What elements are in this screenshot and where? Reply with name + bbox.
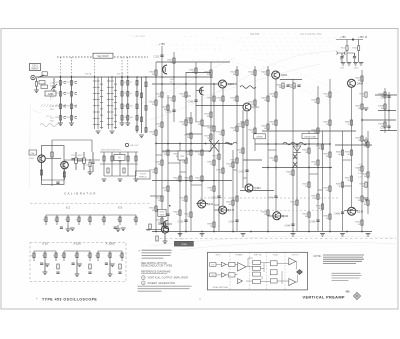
resistor R24 [59, 116, 61, 121]
resistor R23 [59, 104, 61, 109]
resistor divider X 100.2 [76, 253, 78, 258]
resistor R412 [236, 196, 238, 201]
resistor R506 [367, 142, 369, 147]
svg-text:Sig COAX: Sig COAX [97, 55, 109, 58]
capacitor trimmer X 2 [60, 227, 63, 228]
resistor R384 [213, 160, 215, 165]
resistor R492 [350, 176, 352, 181]
resistor R579 [63, 172, 65, 177]
svg-text:C A L I B R A T O R: C A L I B R A T O R [64, 192, 96, 196]
block: delay line box [270, 261, 277, 266]
resistor R424 [254, 70, 256, 75]
resistor R342 [179, 210, 181, 215]
transistor Q585 calibrator [61, 161, 69, 169]
resistor R410 [236, 158, 238, 163]
resistor R90 [145, 128, 147, 133]
wire: rail x162 [161, 46, 163, 231]
resistor ladder rungs [93, 81, 117, 128]
resistor R2 1M [35, 82, 37, 87]
transistor Q414 (half visible) [163, 65, 167, 74]
svg-text:SW 1A: SW 1A [85, 73, 92, 76]
ground Q595 [164, 233, 166, 241]
capacitor trimmer X 5 [114, 227, 117, 228]
svg-text:C590: C590 [381, 127, 387, 130]
resistor R356 [190, 133, 192, 138]
resistor R454 [308, 182, 310, 187]
capacitor C590 [387, 126, 390, 127]
resistor R595 [107, 168, 109, 173]
resistor R31 [70, 81, 72, 86]
svg-text:R574: R574 [83, 165, 88, 167]
capacitor tick chain L2.4 [75, 117, 77, 119]
resistor R348 [185, 158, 187, 163]
resistor R85 [136, 126, 138, 131]
capacitor trimmer X 10 [40, 263, 43, 264]
resistor R109 [89, 264, 91, 269]
resistor R594 [365, 182, 367, 187]
resistor R83 [136, 104, 138, 109]
resistor R593 [135, 156, 137, 161]
resistor R472 [329, 92, 331, 97]
resistor R386 [213, 186, 215, 191]
resistor R500 [361, 166, 363, 171]
svg-text:PREAMP: PREAMP [235, 253, 243, 256]
resistor R21 [59, 81, 61, 86]
resistor R33 [70, 104, 72, 109]
svg-text:R572: R572 [78, 155, 83, 157]
wire: rail x168 [167, 95, 169, 231]
resistor R376 [210, 112, 212, 117]
resistor R498 [361, 136, 363, 141]
wire: rail x351.5 [351, 87, 353, 207]
resistor R598 [156, 236, 158, 241]
resistor R572 [78, 159, 83, 161]
svg-text:SHIELD: SHIELD [139, 177, 147, 179]
resistor R470 [321, 204, 323, 209]
resistor R322 [161, 218, 163, 223]
wire: attenuator chain L2 [71, 77, 73, 123]
capacitor C422 [245, 170, 248, 171]
resistor R302 [155, 70, 157, 75]
resistor divider X 2.4 [78, 217, 80, 222]
resistor R445 [282, 83, 284, 88]
svg-text:Q454: Q454 [281, 73, 288, 77]
wire: rail x309 [308, 131, 310, 231]
switch SW1 AC-DC [38, 75, 44, 78]
resistor R82 [136, 92, 138, 97]
label box CAL switch [29, 150, 37, 155]
wire: far right chain group [136, 77, 138, 133]
wire: inter-rail stubs [156, 96, 352, 205]
resistor R456 [308, 212, 310, 217]
resistor R496 [361, 104, 363, 109]
resistor R581 [75, 158, 78, 163]
resistor R350 [185, 196, 187, 201]
svg-text:R585 R587 R589 R591: R585 R587 R589 R591 [101, 150, 121, 152]
ground X 2 [70, 228, 75, 231]
ground calibrator net [102, 179, 107, 182]
resistor R1 box [39, 81, 45, 85]
transistor Q595 [161, 226, 168, 233]
wire row2 drop b [76, 261, 78, 274]
wire: rail x237 [236, 66, 238, 231]
resistor R442 [275, 156, 277, 161]
ground R594 [364, 198, 369, 201]
block: output amp triangle [289, 258, 296, 265]
resistor divider X 5.2 [119, 217, 121, 222]
resistor R340 [179, 176, 181, 181]
resistor divider X 100.3 [89, 253, 91, 258]
resistor R574 [89, 162, 91, 167]
capacitor tick chain L1.3 [64, 105, 66, 107]
resistor R398 [222, 168, 224, 173]
block: atten box ch1 [229, 262, 236, 266]
wire: rail x255 [254, 66, 256, 151]
label box: line drive [254, 134, 266, 139]
resistor R430 [267, 70, 269, 75]
ground chain R1 [120, 123, 125, 126]
transistor Q444 [198, 200, 206, 208]
wire: calibrator out [64, 159, 100, 161]
ground X 5 [121, 228, 126, 231]
svg-text:SW 465: SW 465 [250, 32, 260, 36]
svg-text:X 5: X 5 [118, 206, 123, 210]
svg-text:(DCPL): (DCPL) [358, 168, 365, 170]
transistor Q404 (half visible) [200, 87, 204, 95]
svg-text:Q464: Q464 [357, 82, 364, 86]
capacitor tick chain L1.2 [64, 93, 66, 95]
wire: rail x276 [275, 79, 277, 212]
wire: attenuator chain L1 [60, 77, 62, 123]
resistor R504 [361, 220, 363, 225]
capacitor C586 [387, 96, 390, 97]
wire: rail x202 [201, 96, 203, 200]
ground ladder B [110, 131, 115, 134]
note: ref diagram item 1 [142, 276, 146, 280]
svg-text:VERT: VERT [159, 211, 165, 213]
svg-text:453 A1 VERTICAL: 453 A1 VERTICAL [213, 286, 229, 289]
resistor network right of calibrator [100, 152, 138, 176]
resistor R111 [119, 264, 121, 269]
svg-text:X 2: X 2 [66, 206, 71, 210]
block: crt diamond [297, 270, 303, 275]
resistor R590 [384, 122, 386, 127]
right edge vertical wire [384, 88, 386, 133]
resistor R400 [232, 162, 234, 167]
wire Q595 base [146, 229, 161, 231]
wire dashed drop A [60, 57, 62, 77]
capacitor tick chain L1.1 [64, 82, 66, 84]
resistor R354 [190, 118, 192, 123]
svg-text:+12V: +12V [358, 164, 363, 166]
resistor divider X 1000.1 [97, 253, 99, 258]
block: vert switch box stack [253, 261, 261, 265]
wire: ladder divider left bank [94, 77, 96, 129]
resistor R426 [254, 100, 256, 105]
svg-text:OUTPUT: OUTPUT [292, 254, 299, 256]
resistor R362 [190, 212, 192, 217]
svg-text:C414: C414 [229, 221, 235, 224]
resistor R482 [341, 150, 343, 155]
transistor Q464 [348, 79, 356, 87]
resistor R382 [213, 126, 215, 131]
resistor divider X 5.1 [103, 217, 105, 222]
svg-text:Q444: Q444 [207, 202, 214, 206]
svg-text:Q494: Q494 [282, 214, 289, 218]
resistor R71 [127, 81, 129, 86]
svg-text:453: 453 [346, 291, 351, 294]
resistor divider X 10.1 [33, 253, 35, 258]
junction dot vert gain [169, 205, 171, 207]
wire: attenuator chain R2 [127, 77, 129, 123]
note: ref diagram item 2 [142, 281, 146, 285]
switch position chart (gray dashed rows) [129, 34, 340, 100]
wire row2 drop a [44, 261, 46, 272]
resistor R318 [161, 160, 163, 165]
wire: rail x196 [195, 62, 197, 122]
resistor R364 [195, 68, 197, 73]
ground X 10 [45, 264, 50, 267]
transistor Q575 calibrator [38, 155, 46, 163]
svg-text:Q434: Q434 [252, 105, 259, 109]
svg-text:CH2: CH2 [211, 275, 214, 277]
ground [241, 234, 246, 237]
ground X 100 [77, 264, 82, 267]
label box input coupling [42, 72, 47, 76]
capacitor C107 [56, 272, 59, 273]
wire: rail x233 [232, 150, 234, 231]
resistor R508 [367, 172, 369, 177]
resistor R326 [167, 150, 169, 155]
svg-text:X 10: X 10 [42, 242, 48, 246]
resistor R597 [123, 168, 125, 173]
resistor divider X 2.5 [89, 217, 91, 222]
wire: rail x268 [267, 66, 269, 231]
resistor R380 [213, 96, 215, 101]
resistor divider X 10.2 [44, 253, 46, 258]
svg-text:C486: C486 [334, 213, 340, 216]
resistor R502 [361, 196, 363, 201]
resistor R394 [222, 96, 224, 101]
resistor R404 [236, 70, 238, 75]
resistor R588 [384, 104, 386, 109]
resistor R589 [119, 156, 121, 161]
ground chain L2 [69, 123, 74, 126]
asterisk mark top right [365, 36, 367, 38]
label: input box [30, 64, 41, 71]
svg-text:X 100: X 100 [73, 242, 81, 246]
transistor Q424 [219, 80, 227, 88]
diode CR442 pair [293, 154, 297, 167]
wire: rail x223 [222, 88, 224, 205]
resistor R432 [267, 96, 269, 101]
resistor R510 [367, 200, 369, 205]
resistor R480 [329, 214, 331, 219]
resistor R494 [361, 76, 363, 81]
resistor R396 [222, 130, 224, 135]
svg-text:2.2K: 2.2K [358, 177, 363, 179]
label box GAIN [45, 91, 56, 96]
resistor R89 [140, 117, 142, 122]
wire: rail x318 [317, 86, 319, 231]
wire row2 drop c [109, 261, 111, 274]
resistor divider X 2.3 [67, 217, 69, 222]
capacitor C486 [341, 212, 344, 213]
resistor R591 [127, 156, 129, 161]
svg-text:SIG IN: SIG IN [46, 116, 52, 118]
resistor R308 [155, 168, 157, 173]
label box: grid sel [178, 151, 186, 160]
svg-text:+75V: +75V [159, 43, 165, 46]
cable squiggle (scan) [40, 124, 60, 127]
resistor R87 [140, 93, 142, 98]
capacitor C3 trimmer [52, 86, 55, 87]
resistor R583 [83, 158, 86, 163]
resistor R324 [167, 105, 169, 110]
block: switch small box lower [253, 280, 261, 284]
resistor R490 [350, 150, 352, 155]
wire: ladder divider right bank [108, 77, 110, 129]
capacitor C445 [286, 85, 289, 86]
svg-text:1 kHz: 1 kHz [29, 158, 34, 160]
svg-text:Q424: Q424 [228, 82, 235, 86]
block: ch2 preamp triangle [222, 273, 227, 278]
wire: rail x368 [367, 131, 369, 214]
capacitor C336 [172, 110, 175, 111]
resistor R434 [267, 124, 269, 129]
capacitor C602 [353, 57, 356, 58]
resistor R61 [121, 81, 123, 86]
capacitor C330 [166, 214, 169, 215]
svg-text:C448: C448 [285, 225, 291, 228]
wire row1 link [90, 214, 104, 216]
resistor R34 [70, 116, 72, 121]
ground far right chain [139, 135, 144, 138]
note: voltage conditions paragraph [138, 286, 192, 291]
svg-text:C586: C586 [381, 97, 387, 100]
resistor R402 [232, 200, 234, 205]
resistor divider X 10.3 [55, 253, 57, 258]
svg-text:+75V: +75V [340, 36, 346, 39]
resistor R452 [308, 148, 310, 153]
resistor R372 [201, 176, 203, 181]
ground [320, 234, 325, 237]
wire: rail x243 [242, 110, 244, 188]
wire: rail x186 [185, 72, 187, 231]
svg-text:DELAY LINE: DELAY LINE [304, 135, 316, 138]
transistor Q494 [273, 212, 281, 220]
svg-text:CAL OUT: CAL OUT [130, 144, 139, 147]
resistor R390 [218, 154, 220, 159]
resistor R378 [210, 134, 212, 139]
resistor R468 [321, 144, 323, 149]
resistor divider X 1000.3 [121, 253, 123, 258]
wire dashed gain link [50, 96, 52, 100]
resistor R88 [145, 106, 147, 111]
junction dot cal out [89, 159, 91, 161]
resistor R332 [173, 58, 175, 63]
ground pair right [353, 63, 358, 66]
resistor divider X 5.3 [135, 217, 137, 222]
resistor divider X 100.1 [63, 253, 65, 258]
inductor L340 [225, 142, 237, 145]
capacitor C111 [118, 272, 121, 273]
capacitor C109 [88, 272, 91, 273]
svg-text:DRIVE: DRIVE [256, 137, 263, 139]
resistor R585 [103, 156, 105, 161]
wire: attenuator chain R1 [121, 77, 123, 123]
transistor Q454 [272, 71, 280, 79]
svg-text:VERTICAL OUTPUT AMPLIFIER: VERTICAL OUTPUT AMPLIFIER [148, 277, 189, 280]
resistor R368 [201, 120, 203, 125]
capacitor C366 [194, 100, 197, 101]
diode CR440 crossing [209, 140, 219, 152]
resistor R458 [317, 98, 319, 103]
resistor R316 [161, 122, 163, 127]
resistor R484 [341, 182, 343, 187]
capacitor tick chain L1.4 [64, 117, 66, 119]
resistor R22 [59, 92, 61, 97]
diode CR441 (triangle) [293, 146, 301, 152]
capacitor C448 [291, 224, 294, 225]
wire: rail x156 [155, 62, 157, 231]
resistor divider X 2.2 [56, 217, 58, 222]
resistor R438 [275, 92, 277, 97]
transistor Q514 [348, 207, 356, 215]
resistor R73 [127, 104, 129, 109]
resistor R72 [127, 92, 129, 97]
svg-text:TYPE 453 OSCILLOSCOPE: TYPE 453 OSCILLOSCOPE [42, 298, 97, 302]
resistor R314 [161, 92, 163, 97]
svg-text:VERTICAL PREAMP: VERTICAL PREAMP [303, 295, 345, 300]
capacitor tick chain L2.3 [75, 105, 77, 107]
wire: rail x180 [179, 143, 181, 236]
wire: dashed section separator [30, 203, 150, 205]
resistor R84 [136, 116, 138, 121]
resistor R32 [70, 92, 72, 97]
inductor L440 delay line [240, 86, 256, 89]
svg-text:Q484: Q484 [254, 186, 261, 190]
resistor R388 [213, 222, 215, 227]
node: coax bus (dashed) [57, 56, 148, 58]
attenuator row 2 dashed enclosure [30, 243, 126, 282]
svg-text:X 1000: X 1000 [106, 242, 115, 246]
wire: rail x297 [296, 143, 298, 231]
wire: rail x362 [361, 70, 363, 231]
label box: DELAY LINE [302, 134, 318, 139]
revision diamond symbol [354, 293, 361, 300]
resistor R488 [350, 120, 352, 125]
resistor R370 [201, 150, 203, 155]
resistor R360 [190, 176, 192, 181]
resistor R478 [329, 186, 331, 191]
hatch marks row [41, 104, 66, 107]
ground [366, 234, 371, 237]
svg-text:VERT SW: VERT SW [254, 254, 262, 256]
wire: rail x174 [173, 52, 175, 122]
resistor R436 [267, 210, 269, 215]
wire dashed drop C [94, 57, 96, 77]
capacitor C444 [274, 196, 277, 197]
resistor R338 [179, 152, 181, 157]
svg-text:INPUT: INPUT [215, 254, 220, 256]
resistor R334 [173, 96, 175, 101]
resistor R440 [275, 120, 277, 125]
resistor R476 [329, 152, 331, 157]
wires: block diagram nets [216, 258, 298, 284]
resistor R310 [155, 206, 157, 211]
ground row1b [117, 225, 119, 229]
